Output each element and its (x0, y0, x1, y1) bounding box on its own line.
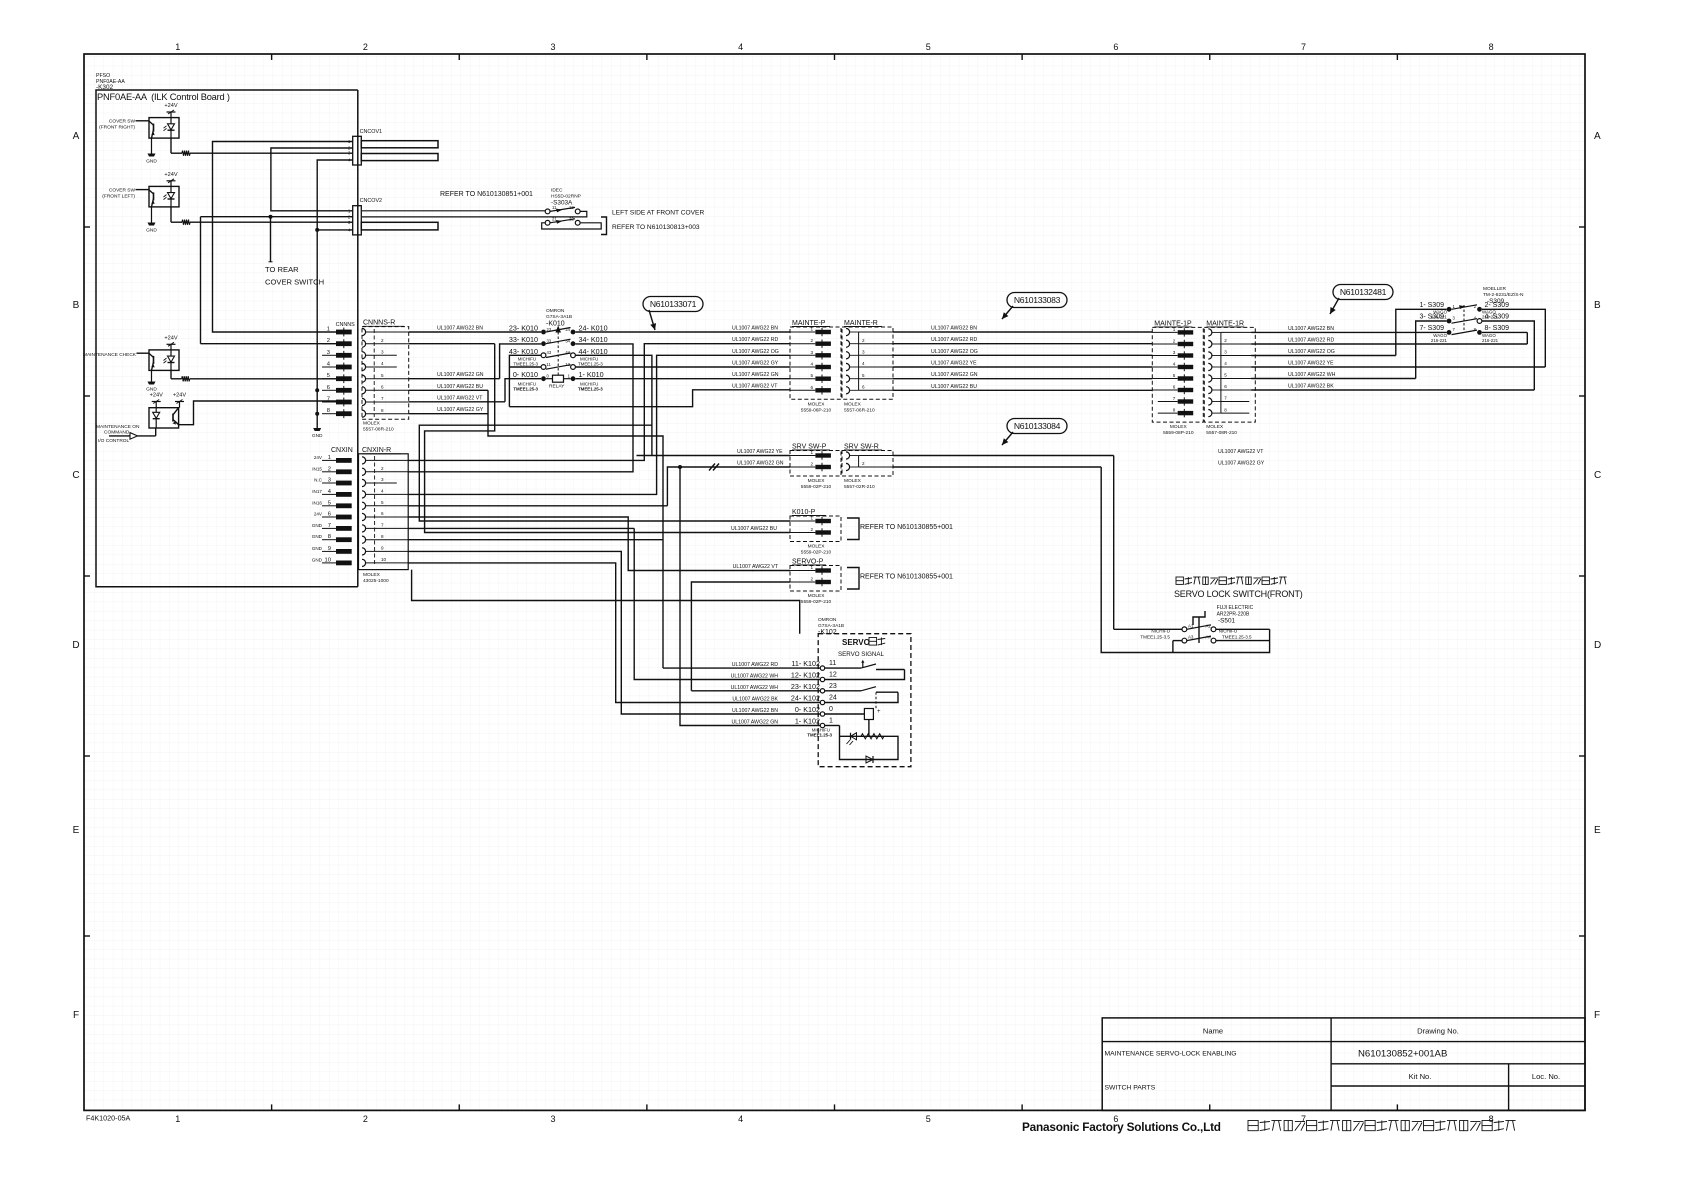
svg-text:TMEE1.25-3.5: TMEE1.25-3.5 (1222, 635, 1252, 640)
svg-text:A: A (73, 131, 80, 142)
crimp label MICHIFU TMEE1.25-3 at K102 pin1 (807, 728, 832, 738)
svg-text:UL1007 AWG22 OG: UL1007 AWG22 OG (931, 349, 978, 355)
svg-text:5557-08R-210: 5557-08R-210 (1206, 430, 1237, 436)
svg-text:5559-08P-210: 5559-08P-210 (1163, 430, 1194, 436)
svg-text:UL1007 AWG22 WH: UL1007 AWG22 WH (731, 685, 779, 691)
svg-text:24V: 24V (314, 455, 323, 460)
svg-text:GND: GND (312, 433, 323, 439)
svg-text:UL1007 AWG22 GN: UL1007 AWG22 GN (437, 372, 484, 378)
svg-text:43025-1000: 43025-1000 (363, 578, 389, 584)
svg-text:UL1007 AWG22 BN: UL1007 AWG22 BN (437, 326, 483, 332)
svg-text:Panasonic Factory Solutions Co: Panasonic Factory Solutions Co.,Ltd (1022, 1120, 1221, 1134)
wire K102 11 feed (663, 667, 820, 669)
wire to SERVO-P pin2 (691, 582, 790, 691)
wire CNCOV1 pin2 to CNCOV2 pin1 (271, 148, 353, 211)
svg-text:SERVO: SERVO (842, 638, 870, 647)
junction CNNNS pin6 (315, 388, 319, 392)
ILK control board K302 outline (96, 73, 358, 587)
wire YE to SRV SW-P pin1 (637, 449, 791, 456)
connector CNCOV1 (348, 129, 382, 165)
svg-text:RELAY: RELAY (549, 384, 565, 390)
label MAINTENANCE ON COMMAND I/O CONTROL (96, 424, 140, 444)
wire CNXIN r7 to K102 12 riser (634, 528, 820, 679)
svg-text:5557-06R-210: 5557-06R-210 (844, 407, 875, 413)
svg-text:N610133083: N610133083 (1014, 295, 1061, 305)
svg-text:B: B (73, 300, 80, 311)
svg-text:+24V: +24V (164, 103, 177, 109)
svg-text:1: 1 (175, 1114, 180, 1124)
svg-text:3: 3 (810, 350, 813, 355)
connector K010-P MOLEX 5559-02P-210 with refer bracket (790, 509, 841, 556)
svg-text:(FRONT LEFT): (FRONT LEFT) (102, 193, 135, 199)
svg-text:D: D (72, 640, 79, 651)
connector CNNNS board side (322, 322, 355, 418)
svg-text:UL1007 AWG22 BU: UL1007 AWG22 BU (437, 384, 483, 390)
svg-text:6: 6 (1113, 42, 1118, 52)
ground for PC2 (146, 207, 157, 234)
connector pair MAINTE-P MAINTE-R (790, 320, 841, 413)
svg-text:CNXIN: CNXIN (331, 447, 353, 454)
label MAINTENANCE CHECK (83, 352, 149, 358)
svg-text:UL1007 AWG22 GY: UL1007 AWG22 GY (1218, 461, 1265, 467)
relay K010 mechanical link (555, 326, 561, 376)
svg-text:CNNNS: CNNNS (336, 322, 356, 328)
svg-text:PNF0AE-AA (ILK Control Board: PNF0AE-AA (ILK Control Board ) (97, 92, 230, 102)
svg-text:MOLEX: MOLEX (1206, 424, 1224, 430)
svg-text:2: 2 (810, 577, 813, 582)
ground for PC3 (146, 370, 157, 392)
svg-text:MOLEX: MOLEX (844, 478, 862, 484)
connector pair SRV SW-P SRV SW-R (790, 444, 841, 491)
svg-text:8: 8 (1224, 407, 1227, 412)
svg-text:A: A (1594, 131, 1601, 142)
svg-text:7- S309: 7- S309 (1419, 325, 1444, 332)
svg-text:(FRONT RIGHT): (FRONT RIGHT) (99, 125, 135, 131)
wire CNXIN pin1 to MAINTE-P pin2 (408, 337, 790, 460)
balloon N610132481 (1333, 285, 1393, 300)
svg-text:3: 3 (1224, 350, 1227, 355)
wire CNCOV1 pin4 CNCOV2 pin4 ground riser (317, 160, 353, 428)
power +24V for PC4 transistor (173, 393, 186, 408)
svg-text:REFER TO N610130855+001: REFER TO N610130855+001 (860, 574, 953, 581)
jumper loop CNCOV1 pins 3-4 (361, 154, 438, 161)
svg-text:UL1007 AWG22 OG: UL1007 AWG22 OG (1288, 349, 1335, 355)
svg-text:SERVO-P: SERVO-P (792, 559, 824, 566)
svg-text:MOLEX: MOLEX (808, 478, 826, 484)
power +24V for PC2 (164, 172, 177, 187)
svg-text:3: 3 (1173, 350, 1176, 355)
svg-text:TMEE1.25-3: TMEE1.25-3 (807, 733, 832, 738)
svg-text:6: 6 (381, 511, 384, 516)
svg-text:12: 12 (829, 672, 837, 679)
svg-text:UL1007 AWG22 VT: UL1007 AWG22 VT (732, 383, 778, 389)
svg-text:SERVO LOCK SWITCH(FRONT): SERVO LOCK SWITCH(FRONT) (1174, 589, 1303, 599)
relay K102 mechanical link (875, 692, 877, 708)
svg-text:FUJI ELECTRIC: FUJI ELECTRIC (1217, 605, 1254, 611)
wire K010 34 down to CNXIN pin2 (408, 344, 633, 472)
svg-text:2: 2 (381, 338, 384, 343)
wire BU CNNNS pin6 down jog (409, 384, 663, 668)
svg-text:UL1007 AWG22 WH: UL1007 AWG22 WH (1288, 372, 1336, 378)
svg-text:CNNNS-R: CNNNS-R (363, 320, 395, 327)
svg-text:UL1007 AWG22 BN: UL1007 AWG22 BN (732, 326, 778, 332)
mystery loop under servo-p (412, 570, 800, 634)
svg-text:5557-02R-210: 5557-02R-210 (844, 484, 875, 490)
svg-text:C: C (1594, 470, 1601, 481)
wire riser to K010 33 (500, 344, 541, 379)
svg-text:+24V: +24V (164, 335, 177, 341)
svg-text:IN17: IN17 (312, 489, 322, 494)
svg-text:IDEC: IDEC (551, 188, 563, 194)
junction CNNNS pin8 (315, 412, 319, 416)
svg-text:UL1007 AWG22 VT: UL1007 AWG22 VT (1218, 449, 1264, 455)
svg-text:8: 8 (381, 534, 384, 539)
svg-text:2: 2 (363, 1114, 368, 1124)
relay K102 dashed box SERVO SIGNAL (818, 634, 911, 767)
switch S501 operator symbol (1193, 611, 1205, 643)
svg-text:23: 23 (829, 683, 837, 690)
svg-text:UL1007 AWG22 VT: UL1007 AWG22 VT (437, 395, 483, 401)
wire RD MAINTE-1R pin2 to S309 contact 8 (1251, 332, 1527, 344)
svg-text:UL1007 AWG22 RD: UL1007 AWG22 RD (732, 662, 778, 668)
junction SRV SW-P pin2 to K102 1 branch (678, 465, 820, 726)
svg-text:CNCOV1: CNCOV1 (360, 129, 382, 135)
svg-text:23- K102: 23- K102 (791, 682, 820, 691)
wire K010 44 right down to SRV SW feed (576, 355, 652, 455)
svg-text:UL1007 AWG22 GN: UL1007 AWG22 GN (731, 720, 778, 726)
svg-text:UL1007 AWG22 RD: UL1007 AWG22 RD (1288, 338, 1334, 344)
relay K010 contact 33-34 (509, 335, 608, 346)
svg-text:UL1007 AWG22 GN: UL1007 AWG22 GN (931, 372, 978, 378)
svg-text:24- K010: 24- K010 (579, 324, 608, 333)
svg-text:5559-02P-210: 5559-02P-210 (801, 550, 832, 556)
svg-text:5: 5 (1224, 373, 1227, 378)
svg-text:6: 6 (862, 385, 865, 390)
wire PC2 output to CNCOV2 pin3 with resistor (171, 207, 353, 225)
svg-text:6: 6 (1224, 384, 1227, 389)
svg-text:4: 4 (381, 489, 384, 494)
svg-text:MAINTENANCE SERVO-LOCK ENABLIN: MAINTENANCE SERVO-LOCK ENABLING (1105, 1051, 1237, 1058)
wire K010 11 stub (509, 366, 541, 368)
svg-text:MAINTE-1R: MAINTE-1R (1206, 320, 1244, 327)
jumper loop CNCOV1 pins 1-2 (361, 141, 438, 148)
relay K102 LED resistor diode network (825, 726, 898, 764)
relay K102 coil (825, 709, 881, 737)
svg-text:MAINTE-R: MAINTE-R (844, 320, 878, 327)
svg-text:MOLEX: MOLEX (844, 401, 862, 407)
svg-text:F4K1020-05A: F4K1020-05A (86, 1114, 131, 1123)
svg-text:5559-02P-210: 5559-02P-210 (801, 599, 832, 605)
svg-text:UL1007 AWG22 WH: UL1007 AWG22 WH (731, 674, 779, 680)
wire BN MAINTE-1R pin1 to S309 contact 7 (1251, 326, 1446, 333)
svg-text:7: 7 (381, 396, 384, 401)
svg-text:34- K010: 34- K010 (579, 335, 608, 344)
svg-text:24V: 24V (314, 512, 323, 517)
svg-text:REFER TO N610130855+001: REFER TO N610130855+001 (860, 524, 953, 531)
svg-text:TMEE1.25-3: TMEE1.25-3 (513, 387, 538, 392)
svg-text:NICHIFU: NICHIFU (1151, 629, 1170, 634)
svg-text:2: 2 (862, 461, 865, 466)
svg-text:MOLEX: MOLEX (1170, 424, 1188, 430)
switch S309 contact 3-4 (1419, 314, 1509, 324)
svg-text:COVER SW: COVER SW (109, 119, 136, 125)
svg-text:43: 43 (547, 350, 552, 355)
optocoupler PC3 MAINTENANCE CHECK (149, 350, 179, 371)
svg-text:UL1007 AWG22 GY: UL1007 AWG22 GY (437, 407, 484, 413)
balloon N610133071 (643, 297, 703, 312)
ferrule labels WAGO 216-221 at S309 (1431, 310, 1499, 344)
stub TO REAR COVER SWITCH (265, 217, 324, 287)
svg-text:2: 2 (810, 527, 813, 532)
svg-text:UL1007 AWG22 BU: UL1007 AWG22 BU (731, 526, 777, 532)
svg-text:SRV SW-R: SRV SW-R (844, 444, 879, 451)
svg-text:UL1007 AWG22 BK: UL1007 AWG22 BK (1288, 384, 1334, 390)
switch S501 contact A1-A2 (1114, 623, 1270, 631)
wire CNXIN pin5 riser to SRV SW (408, 505, 667, 507)
wire CNCOV2 pin1 to S303A 11 and loop back from 12 to pin2 (362, 211, 587, 217)
optocoupler PC4 MAINTENANCE ON COMMAND (149, 408, 179, 428)
relay K102 contact 23-24 (825, 687, 898, 703)
wire CNCOV1 pin1 to CNNNS pin1 riser (213, 142, 353, 333)
wire YE MAINTE-1R pin4 to S309 contact 2 (1251, 309, 1545, 367)
svg-text:2: 2 (363, 42, 368, 52)
svg-text:UL1007 AWG22 VT: UL1007 AWG22 VT (733, 564, 779, 570)
svg-text:2: 2 (1173, 339, 1176, 344)
svg-text:IN15: IN15 (312, 466, 322, 471)
svg-text:44- K010: 44- K010 (579, 347, 608, 356)
svg-text:7: 7 (1224, 396, 1227, 401)
footer japanese company name mimic (1248, 1121, 1516, 1131)
svg-text:8: 8 (381, 408, 384, 413)
svg-text:UL1007 AWG22 GN: UL1007 AWG22 GN (732, 372, 779, 378)
svg-text:0- K102: 0- K102 (795, 705, 820, 714)
svg-text:MAINTENANCE CHECK: MAINTENANCE CHECK (83, 352, 137, 358)
svg-text:OMRON: OMRON (818, 617, 837, 623)
wires MAINTE-R to MAINTE-1P with labels (893, 326, 1152, 391)
svg-text:TO REAR: TO REAR (265, 265, 299, 274)
svg-text:MOLEX: MOLEX (808, 401, 826, 407)
svg-text:TMEE1.25-3.5: TMEE1.25-3.5 (1140, 635, 1170, 640)
svg-text:F: F (73, 1010, 79, 1021)
svg-text:1- K010: 1- K010 (579, 370, 604, 379)
relay K010 contact 11-12 (541, 362, 575, 370)
svg-text:Kit No.: Kit No. (1409, 1072, 1432, 1081)
wire GN to SRV SW-P pin2 with junction and slashes (667, 461, 790, 506)
junction CNCOV2 pin4 (315, 228, 319, 232)
svg-text:1: 1 (810, 327, 813, 332)
svg-text:4: 4 (862, 361, 865, 366)
optocoupler PC2 COVER SW FRONT LEFT (149, 186, 179, 207)
wire 43 jog to MAINTE-P pin6 (509, 383, 790, 406)
svg-text:E: E (73, 825, 80, 836)
svg-text:I/O CONTROL: I/O CONTROL (98, 438, 130, 444)
label COVER SW FRONT RIGHT (99, 119, 149, 131)
svg-text:COVER SW: COVER SW (109, 187, 136, 193)
wire BN CNNNS pin1 to K010 contact 23 (409, 326, 541, 333)
balloon N610133084 (1007, 419, 1067, 434)
kanji SERVO SIGNAL title mimic (869, 638, 885, 646)
svg-text:4: 4 (381, 361, 384, 366)
svg-text:11: 11 (829, 660, 836, 667)
svg-text:C: C (72, 470, 79, 481)
svg-text:216-221: 216-221 (1482, 315, 1499, 320)
ground for PC1 (146, 138, 157, 164)
svg-text:REFER TO N610130851+001: REFER TO N610130851+001 (440, 191, 533, 198)
svg-text:Name: Name (1203, 1027, 1223, 1036)
svg-text:MAINTE-P: MAINTE-P (792, 320, 826, 327)
svg-text:NICHIFU: NICHIFU (1219, 629, 1238, 634)
switch S309 mechanical link (1463, 305, 1465, 332)
svg-text:1: 1 (175, 42, 180, 52)
board edge line through CNNNS and CNXIN (357, 90, 359, 587)
svg-text:5: 5 (862, 373, 865, 378)
wire S303A 21 22 to refer loop (542, 223, 602, 229)
kanji servo lock switch front mimic (1176, 577, 1287, 584)
svg-text:24: 24 (829, 695, 837, 702)
svg-text:UL1007 AWG22 BN: UL1007 AWG22 BN (732, 708, 778, 714)
svg-text:5: 5 (381, 500, 384, 505)
svg-text:Drawing No.: Drawing No. (1417, 1027, 1459, 1036)
svg-text:2- S309: 2- S309 (1485, 302, 1510, 309)
svg-text:SERVO SIGNAL: SERVO SIGNAL (838, 651, 885, 658)
svg-text:TMEE1.25-3: TMEE1.25-3 (578, 387, 603, 392)
wire CNXIN pin9 to K102 0 riser (408, 551, 820, 714)
svg-text:5: 5 (926, 1114, 931, 1124)
svg-text:+: + (877, 709, 881, 715)
ground for CNNNS pins 6 8 (312, 428, 323, 439)
junction to rear cover switch (269, 215, 273, 219)
switch S309 contact 1-2 (1419, 302, 1509, 312)
wire GN CNNNS pin5 to riser (409, 372, 500, 379)
svg-text:24- K102: 24- K102 (791, 694, 820, 703)
svg-text:5: 5 (926, 42, 931, 52)
svg-text:D: D (1594, 640, 1601, 651)
svg-text:REFER TO N610130813+003: REFER TO N610130813+003 (612, 224, 700, 231)
wire VT CNNNS pin7 to K010 coil 0 (409, 379, 541, 402)
svg-text:MOLEX: MOLEX (363, 421, 381, 427)
balloon N610133083 (1007, 293, 1067, 308)
svg-text:UL1007 AWG22 YE: UL1007 AWG22 YE (737, 449, 783, 455)
svg-text:33- K010: 33- K010 (509, 335, 538, 344)
jumper loop CNCOV2 pins 3-4 (361, 222, 438, 230)
wire OG MAINTE-1R pin3 to S309 contact 1 (1251, 309, 1446, 355)
svg-text:6: 6 (810, 385, 813, 390)
wire GY CNNNS pin8 to K010 43 riser (409, 355, 541, 413)
svg-text:CNXIN-R: CNXIN-R (362, 447, 391, 454)
relay K102 pins and labels (731, 659, 837, 728)
power +24V for PC3 (164, 335, 177, 350)
svg-text:UL1007 AWG22 BN: UL1007 AWG22 BN (931, 326, 977, 332)
svg-text:216-221: 216-221 (1431, 315, 1448, 320)
power +24V for PC1 (164, 103, 177, 118)
svg-text:5: 5 (1173, 373, 1176, 378)
optocoupler PC1 COVER SW FRONT RIGHT (149, 118, 179, 139)
svg-text:8- S309: 8- S309 (1485, 325, 1510, 332)
svg-text:4: 4 (1224, 361, 1227, 366)
svg-text:+24V: +24V (150, 393, 163, 399)
wire SRV SW-R pin2 to S501 outer loop (893, 461, 1270, 653)
relay K010 contact 43-44 (509, 347, 608, 358)
wire CNXIN pin6 to SERVO-P pin1 (408, 517, 790, 571)
wire K010 24 to MAINTE-P pin1 (576, 326, 791, 333)
svg-text:6: 6 (1173, 385, 1176, 390)
switch S309 MOELLER TM-2-8231/EZ/S-N (1483, 286, 1524, 305)
svg-text:COVER SWITCH: COVER SWITCH (265, 278, 324, 287)
svg-text:5559-06P-210: 5559-06P-210 (801, 407, 832, 413)
svg-text:9: 9 (381, 546, 384, 551)
svg-text:12- K102: 12- K102 (791, 671, 820, 680)
svg-text:MOLEX: MOLEX (808, 593, 826, 599)
svg-text:UL1007 AWG22 YE: UL1007 AWG22 YE (931, 361, 977, 367)
svg-text:23- K010: 23- K010 (509, 324, 538, 333)
svg-text:11- K102: 11- K102 (791, 659, 820, 668)
svg-text:Loc. No.: Loc. No. (1532, 1072, 1560, 1081)
power +24V for PC4 LED (150, 393, 163, 408)
svg-text:MOLEX: MOLEX (363, 572, 381, 578)
svg-text:7: 7 (381, 523, 384, 528)
svg-text:5559-02P-210: 5559-02P-210 (801, 484, 832, 490)
switch S501 contact A3-A4 (1173, 635, 1270, 653)
svg-text:8: 8 (1489, 42, 1494, 52)
svg-text:3: 3 (381, 350, 384, 355)
svg-text:N610133071: N610133071 (650, 299, 697, 309)
svg-text:3: 3 (862, 350, 865, 355)
svg-text:216-221: 216-221 (1431, 338, 1448, 343)
svg-text:2: 2 (810, 338, 813, 343)
connector pair MAINTE-1P MAINTE-1R (1152, 320, 1203, 436)
svg-text:1: 1 (810, 516, 813, 521)
svg-text:7: 7 (1301, 42, 1306, 52)
svg-text:TMEE1.25-3: TMEE1.25-3 (578, 362, 603, 367)
wire CNXIN pin10 to K102 24 riser (408, 563, 820, 703)
svg-text:7: 7 (1301, 1114, 1306, 1124)
svg-text:+24V: +24V (164, 172, 177, 178)
svg-text:2: 2 (862, 338, 865, 343)
svg-text:IN16: IN16 (312, 500, 322, 505)
svg-text:GND: GND (312, 557, 323, 562)
wire CNXIN pin7 to K102 12 riser (408, 527, 634, 529)
svg-text:COMMAND: COMMAND (104, 430, 130, 436)
wire CNNNS pin2 to riser 494.7 (409, 343, 495, 345)
svg-text:216-221: 216-221 (1482, 338, 1499, 343)
svg-text:GND: GND (312, 534, 323, 539)
svg-text:8: 8 (1173, 408, 1176, 413)
relay K010 contact 23-24 (509, 324, 608, 335)
svg-text:5: 5 (381, 373, 384, 378)
title block (1102, 1018, 1585, 1111)
svg-text:1: 1 (810, 450, 813, 455)
svg-text:3: 3 (551, 1114, 556, 1124)
svg-text:-S501: -S501 (1218, 618, 1235, 625)
svg-text:4: 4 (738, 42, 743, 52)
svg-text:UL1007 AWG22 GY: UL1007 AWG22 GY (732, 361, 779, 367)
svg-text:GND: GND (146, 228, 157, 234)
relay K102 contact 11-12 (825, 660, 905, 680)
svg-text:4: 4 (1173, 362, 1176, 367)
svg-text:4: 4 (738, 1114, 743, 1124)
svg-text:GND: GND (146, 159, 157, 165)
svg-text:UL1007 AWG22 GN: UL1007 AWG22 GN (737, 461, 784, 467)
label COVER SW FRONT LEFT (102, 187, 149, 199)
svg-text:11: 11 (547, 362, 552, 367)
svg-text:B: B (1594, 300, 1601, 311)
wire CNCOV2 pin2 from PC2 net (201, 217, 353, 344)
svg-text:2: 2 (1224, 338, 1227, 343)
svg-text:1- S309: 1- S309 (1419, 302, 1444, 309)
wire CNXIN pin4 to MAINTE-P pin3 (408, 349, 790, 495)
bracket and refer text right of S303A (601, 210, 704, 235)
footer Panasonic Factory Solutions (1022, 1120, 1221, 1134)
